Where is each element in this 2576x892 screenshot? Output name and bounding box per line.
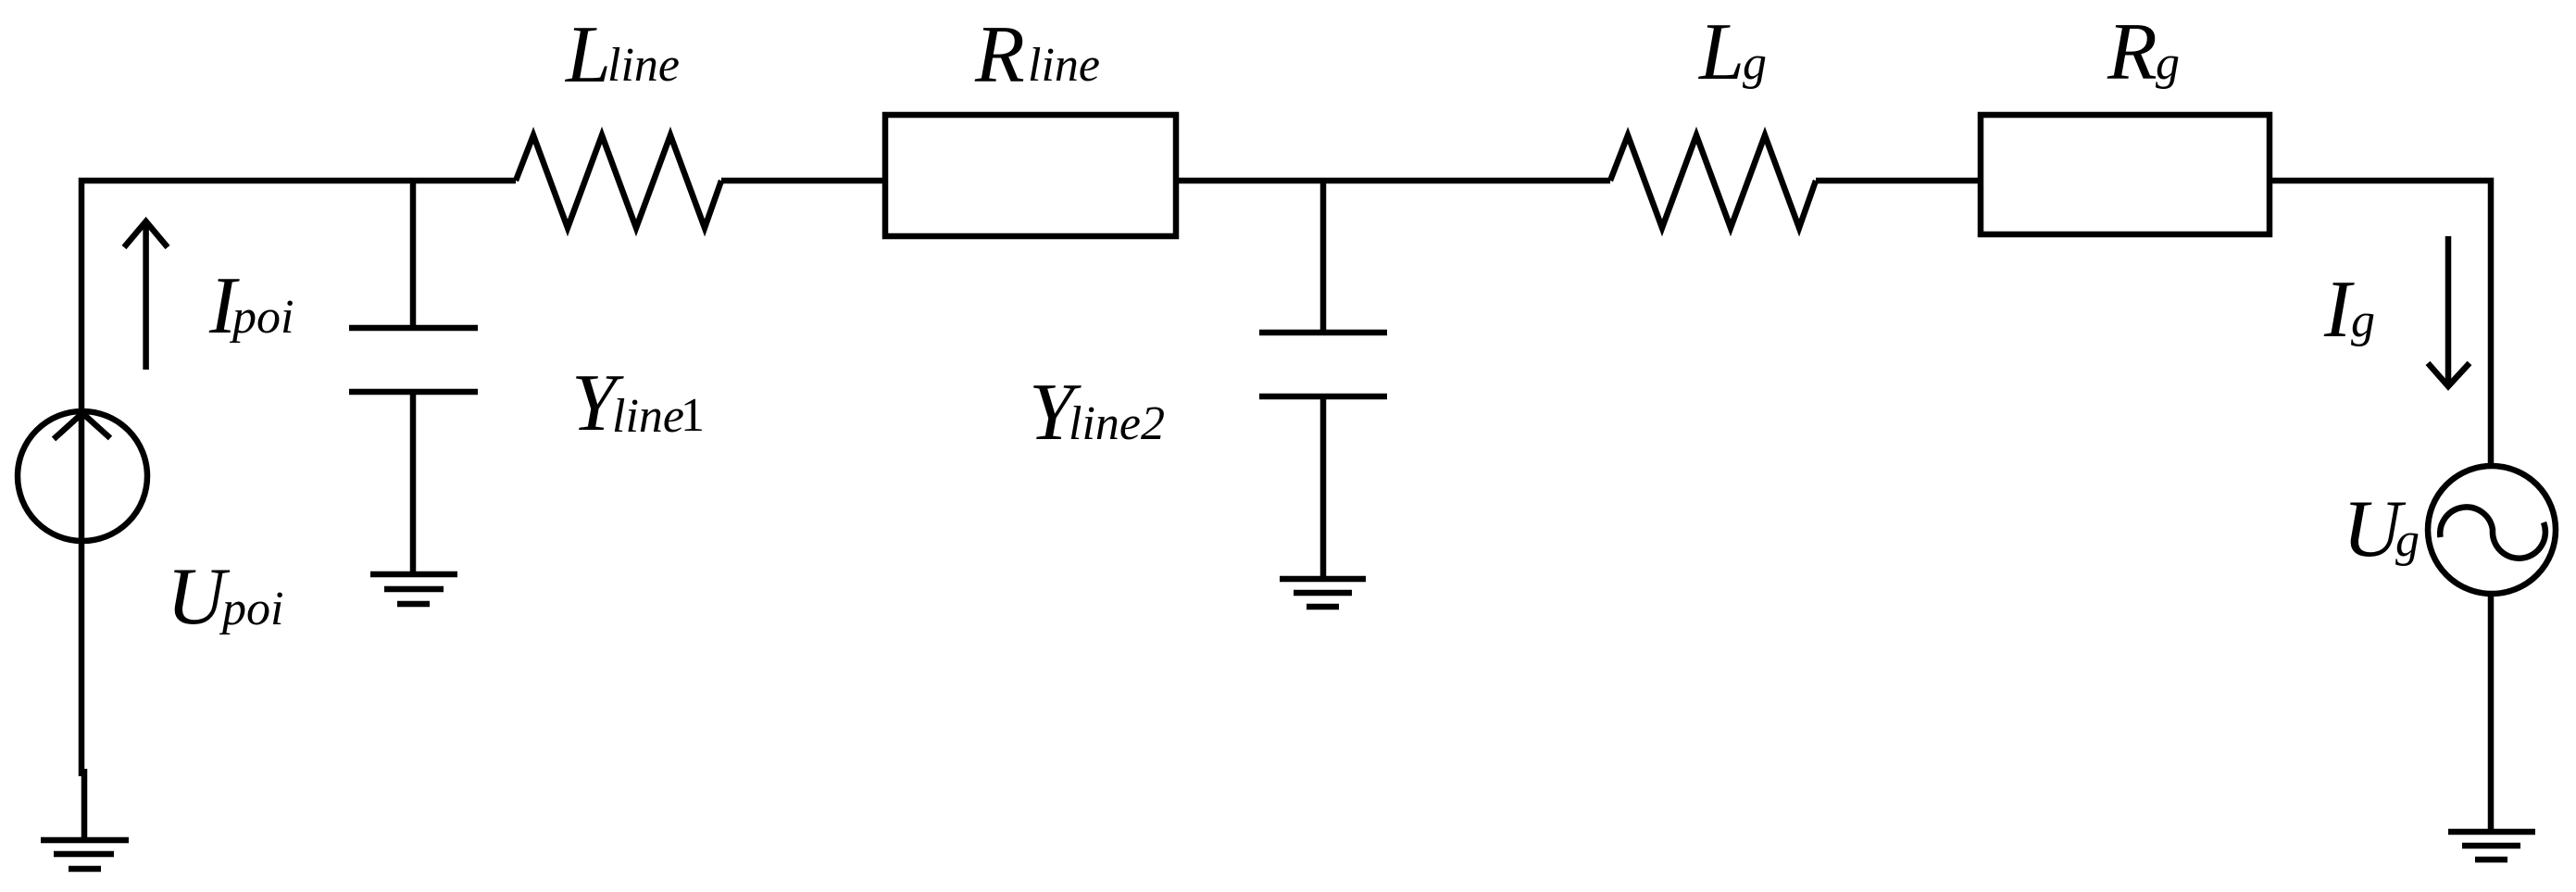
svg-text:L: L bbox=[1697, 7, 1744, 97]
svg-text:U: U bbox=[167, 552, 231, 642]
svg-text:g: g bbox=[2395, 514, 2420, 567]
svg-text:line2: line2 bbox=[1069, 397, 1165, 450]
svg-text:poi: poi bbox=[229, 291, 294, 344]
svg-text:1: 1 bbox=[681, 389, 705, 442]
svg-text:R: R bbox=[2107, 7, 2157, 97]
svg-text:I: I bbox=[2323, 265, 2355, 355]
svg-text:R: R bbox=[974, 10, 1025, 100]
svg-text:line: line bbox=[1028, 39, 1100, 92]
svg-text:line: line bbox=[612, 390, 684, 443]
svg-text:line: line bbox=[607, 39, 680, 92]
svg-text:g: g bbox=[1743, 37, 1767, 90]
svg-text:g: g bbox=[2351, 295, 2375, 347]
svg-text:g: g bbox=[2156, 37, 2180, 90]
svg-text:L: L bbox=[564, 10, 611, 100]
svg-text:poi: poi bbox=[219, 583, 283, 635]
